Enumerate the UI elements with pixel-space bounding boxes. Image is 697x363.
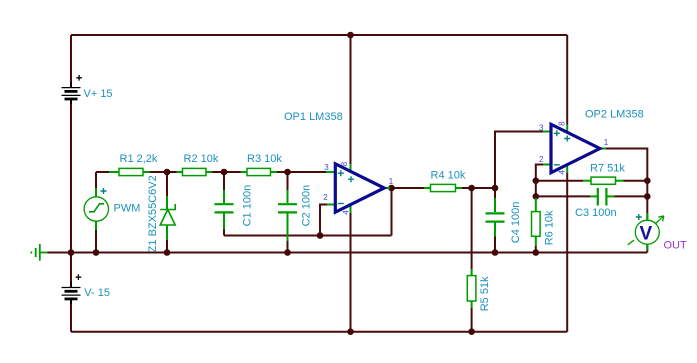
svg-text:R4 10k: R4 10k — [431, 170, 466, 182]
svg-text:Z1 BZX55C6V2: Z1 BZX55C6V2 — [147, 175, 159, 252]
svg-text:1: 1 — [389, 177, 394, 186]
svg-text:V: V — [640, 223, 653, 244]
svg-text:C1 100n: C1 100n — [241, 185, 253, 227]
svg-text:OP2 LM358: OP2 LM358 — [585, 108, 644, 120]
svg-text:8: 8 — [558, 121, 567, 126]
svg-text:1: 1 — [604, 138, 609, 147]
svg-text:2: 2 — [539, 155, 544, 164]
svg-text:R1 2,2k: R1 2,2k — [120, 153, 158, 165]
svg-text:4: 4 — [341, 210, 350, 215]
svg-text:V- 15: V- 15 — [84, 287, 110, 299]
svg-text:3: 3 — [539, 123, 544, 132]
svg-text:C4 100n: C4 100n — [510, 202, 522, 244]
svg-text:C2 100n: C2 100n — [301, 185, 313, 227]
svg-text:4: 4 — [558, 170, 567, 175]
svg-text:OP1 LM358: OP1 LM358 — [284, 111, 343, 123]
svg-text:PWM: PWM — [114, 202, 141, 214]
svg-text:V+ 15: V+ 15 — [84, 88, 113, 100]
svg-text:2: 2 — [323, 193, 328, 202]
svg-text:OUT: OUT — [664, 240, 688, 252]
svg-text:R2 10k: R2 10k — [184, 153, 219, 165]
svg-text:C3 100n: C3 100n — [575, 207, 617, 219]
svg-text:R5 51k: R5 51k — [479, 276, 491, 311]
svg-text:8: 8 — [340, 161, 349, 166]
svg-text:3: 3 — [324, 163, 329, 172]
svg-text:R6 10k: R6 10k — [543, 210, 555, 245]
svg-text:R3 10k: R3 10k — [247, 153, 282, 165]
svg-text:R7 51k: R7 51k — [590, 163, 625, 175]
